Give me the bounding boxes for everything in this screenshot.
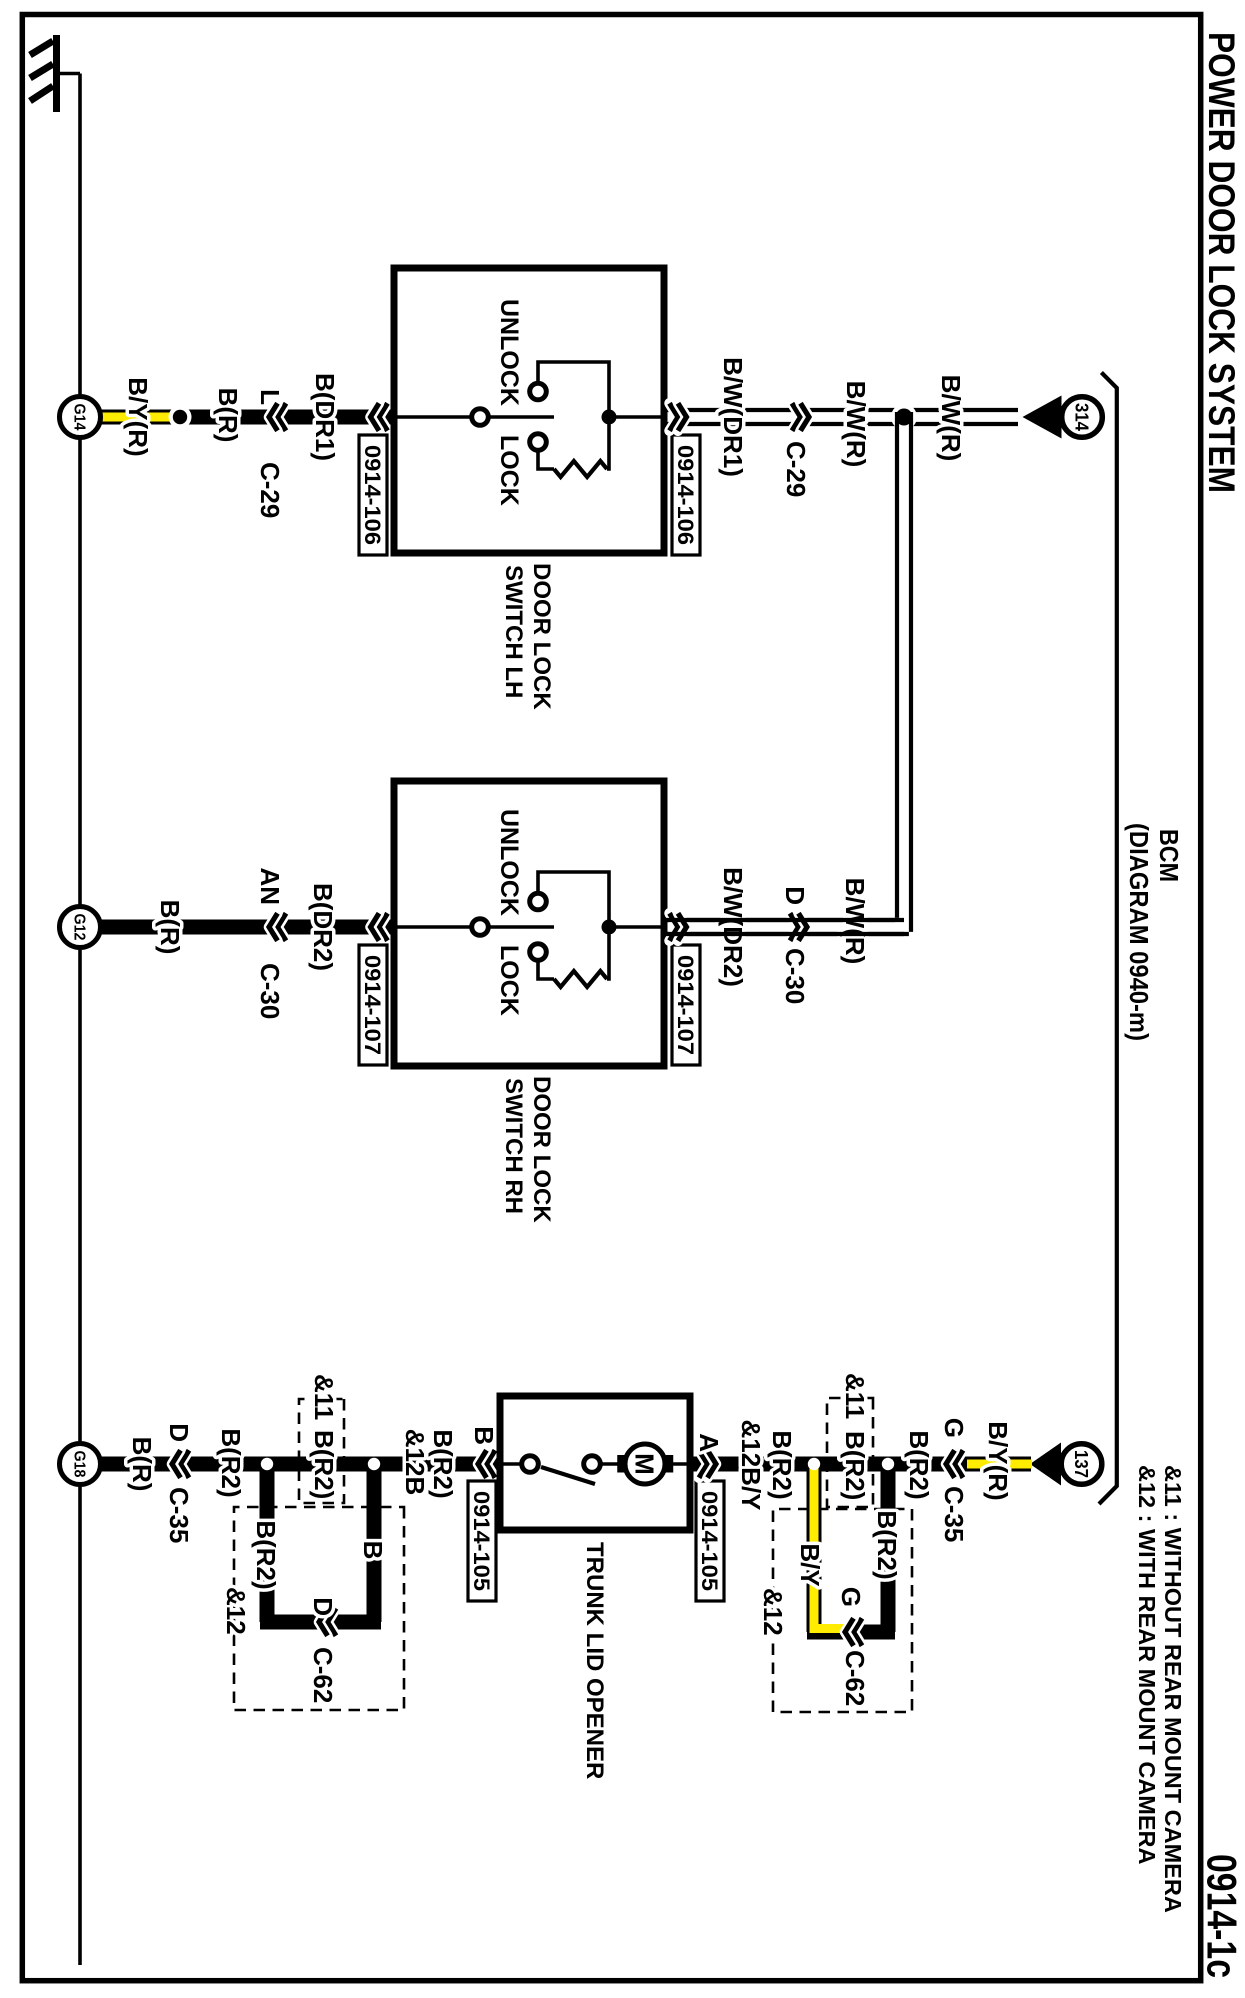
variant box &12 (lower)	[234, 1507, 404, 1710]
wire ground symbol to bus	[60, 72, 80, 76]
wire LOCK contact to resistor	[538, 450, 554, 469]
svg-text:B(DR2): B(DR2)	[308, 883, 338, 971]
svg-text:G12: G12	[71, 914, 88, 941]
ground bus wire	[78, 74, 82, 1966]
svg-text:C-62: C-62	[308, 1647, 338, 1703]
switch RH LOCK contact	[530, 944, 547, 961]
variant box &12 (upper)	[773, 1509, 912, 1712]
svg-text:B/Y(R): B/Y(R)	[123, 377, 153, 456]
svg-text:B/Y: B/Y	[795, 1543, 825, 1586]
junction dot in switch LH	[602, 410, 617, 425]
connector C-30 chevrons (upper)	[790, 913, 799, 941]
wire B/W(DR1) double-line from switch LH to C-29	[664, 408, 904, 412]
svg-text:(DIAGRAM 0940-m): (DIAGRAM 0940-m)	[1124, 823, 1154, 1041]
svg-text:&12 : WITH REAR MOUNT CAMERA: &12 : WITH REAR MOUNT CAMERA	[1134, 1465, 1160, 1865]
connector C-30 chevrons (pin AN)	[278, 913, 287, 941]
in-line connector chevrons at switch LH lower pin	[379, 403, 388, 431]
svg-text:C-35: C-35	[939, 1486, 969, 1542]
svg-text:B/W(DR1): B/W(DR1)	[718, 357, 748, 477]
in-line connector chevrons at trunk lid opener lower pin	[487, 1450, 496, 1478]
svg-text:TRUNK LID OPENER: TRUNK LID OPENER	[581, 1542, 608, 1779]
svg-text:B(R): B(R)	[213, 388, 243, 443]
svg-text:L: L	[255, 389, 285, 405]
svg-text:B: B	[358, 1541, 388, 1560]
part label 0914-107 (upper)	[672, 945, 700, 1065]
wire RH junction to box top	[609, 925, 664, 929]
variant box &11 (lower)	[299, 1399, 344, 1503]
&12 detour wire lower (via C-62)	[260, 1464, 275, 1622]
trunk switch upper contact	[584, 1456, 601, 1473]
part label 0914-105 (upper)	[696, 1481, 724, 1601]
svg-text:&12: &12	[758, 1588, 788, 1636]
svg-text:LOCK: LOCK	[495, 435, 523, 506]
ground node G18	[60, 1444, 101, 1485]
&12 detour wire upper (B/Y via C-62)	[807, 1464, 822, 1632]
trunk switch arm	[541, 1467, 595, 1484]
wire B/W(R) to BCM 314	[904, 408, 1018, 412]
svg-text:B: B	[469, 1426, 499, 1445]
svg-text:0914-105: 0914-105	[697, 1491, 722, 1591]
trunk switch lower contact	[500, 1462, 522, 1466]
svg-text:BCM: BCM	[1154, 829, 1184, 882]
svg-text:0914-1c: 0914-1c	[1199, 1854, 1245, 1978]
motor M	[617, 1455, 625, 1473]
in-line connector chevrons at switch RH lower pin	[379, 913, 388, 941]
wire switch to motor	[600, 1462, 624, 1466]
switch LH movable arm	[488, 415, 554, 419]
wire RH resistor to output junction	[607, 934, 609, 979]
BCM connector arrow 314	[1023, 396, 1062, 439]
junction dot upper right	[808, 1458, 820, 1470]
svg-text:D: D	[780, 886, 810, 905]
svg-text:DOOR LOCK: DOOR LOCK	[528, 563, 555, 710]
svg-text:B(R2): B(R2)	[309, 1430, 339, 1499]
svg-text:B(R2): B(R2)	[767, 1430, 797, 1499]
BCM bracket	[1099, 373, 1117, 1505]
svg-text:0914-107: 0914-107	[360, 955, 385, 1055]
wire UNLOCK contact to output junction	[538, 362, 609, 410]
ground node G12	[60, 907, 101, 948]
svg-text:B(R): B(R)	[155, 900, 185, 955]
part label 0914-106 (upper)	[672, 435, 700, 555]
svg-text:C-30: C-30	[255, 963, 285, 1019]
svg-text:G: G	[939, 1418, 969, 1438]
svg-text:C-35: C-35	[164, 1487, 194, 1543]
svg-text:B(R2): B(R2)	[904, 1430, 934, 1499]
switch LH LOCK contact	[530, 434, 547, 451]
svg-text:B(R2): B(R2)	[872, 1510, 902, 1579]
switch LH UNLOCK contact	[530, 383, 547, 400]
svg-text:0914-106: 0914-106	[360, 445, 385, 545]
svg-text:C-62: C-62	[840, 1650, 870, 1706]
switch box DOOR LOCK SWITCH LH	[394, 268, 664, 553]
wire RH LOCK contact to resistor	[538, 960, 554, 979]
svg-text:D: D	[164, 1423, 194, 1442]
svg-text:M: M	[630, 1453, 660, 1475]
svg-text:UNLOCK: UNLOCK	[495, 809, 523, 916]
resistor in switch RH	[554, 971, 607, 987]
junction of switch outputs	[891, 404, 917, 430]
svg-text:0914-105: 0914-105	[469, 1491, 494, 1591]
svg-text:SWITCH LH: SWITCH LH	[500, 565, 527, 698]
wire junction to box top	[609, 415, 664, 419]
connector C-62 chevrons (upper)	[854, 1618, 863, 1646]
svg-text:0914-107: 0914-107	[673, 955, 698, 1055]
svg-text:B(R2): B(R2)	[840, 1431, 870, 1500]
switch box DOOR LOCK SWITCH RH	[394, 781, 664, 1066]
yellow B/Y(R) overlay above C-35	[967, 1460, 1032, 1469]
svg-text:B(R2): B(R2)	[216, 1428, 246, 1497]
svg-text:&12: &12	[221, 1587, 251, 1635]
resistor in switch LH	[554, 461, 607, 477]
connector C-35 chevrons (pin D)	[181, 1450, 190, 1478]
svg-text:137: 137	[1071, 1450, 1091, 1478]
BCM connector arrow 137	[1030, 1443, 1061, 1486]
connector C-35 chevrons (upper)	[955, 1450, 964, 1478]
switch RH UNLOCK contact	[530, 893, 547, 910]
svg-text:UNLOCK: UNLOCK	[495, 299, 523, 406]
wire motor to box top	[665, 1462, 690, 1466]
connector C-62 chevrons (lower)	[328, 1608, 337, 1636]
variant box &11 (upper)	[827, 1398, 873, 1507]
svg-text:B/Y(R): B/Y(R)	[983, 1421, 1013, 1500]
svg-text:B/W(R): B/W(R)	[841, 381, 871, 468]
switch LH common wire and pivot contact	[394, 415, 472, 419]
svg-text:&11: &11	[840, 1373, 870, 1419]
svg-text:314: 314	[1072, 403, 1092, 431]
svg-text:LOCK: LOCK	[495, 945, 523, 1016]
svg-text:B(DR1): B(DR1)	[310, 373, 340, 461]
wire RH UNLOCK contact to output junction	[538, 872, 609, 920]
wire B/Y(R) from G14 (yellow)	[101, 410, 180, 425]
svg-text:C-29: C-29	[255, 462, 285, 518]
wire B(R) up to switch LH	[184, 410, 394, 425]
svg-text:0914-106: 0914-106	[673, 445, 698, 545]
svg-text:&12B/Y: &12B/Y	[736, 1419, 766, 1510]
svg-text:A: A	[694, 1433, 724, 1452]
switch RH common wire and pivot contact	[394, 925, 472, 929]
svg-text:SWITCH RH: SWITCH RH	[500, 1078, 527, 1214]
wire resistor to output junction	[607, 424, 609, 469]
svg-text:G14: G14	[71, 404, 88, 431]
wire B/W(R) link col2 to col1	[664, 918, 895, 922]
svg-text:POWER DOOR LOCK SYSTEM: POWER DOOR LOCK SYSTEM	[1201, 32, 1242, 493]
svg-text:G18: G18	[71, 1451, 88, 1478]
in-line connector chevrons at switch LH upper pin	[670, 403, 679, 431]
junction dot in switch RH	[602, 920, 617, 935]
svg-text:B(R2): B(R2)	[251, 1520, 281, 1589]
connector C-29 chevrons (upper)	[792, 403, 801, 431]
svg-text:&11 : WITHOUT REAR MOUNT CAMER: &11 : WITHOUT REAR MOUNT CAMERA	[1160, 1465, 1186, 1913]
part label 0914-106 (lower)	[359, 435, 387, 555]
svg-text:C-29: C-29	[781, 441, 811, 497]
svg-text:C-30: C-30	[780, 948, 810, 1004]
wire B/W(DR2) double-line from switch RH	[664, 918, 904, 922]
in-line connector chevrons at trunk lid opener upper pin	[699, 1450, 708, 1478]
svg-text:AN: AN	[255, 867, 285, 905]
wire B(R) from G12	[101, 920, 394, 935]
svg-text:B(R): B(R)	[127, 1437, 157, 1492]
svg-text:D: D	[308, 1597, 338, 1616]
svg-text:&12B: &12B	[400, 1429, 430, 1495]
svg-text:&11: &11	[309, 1374, 339, 1420]
junction dot lower left	[368, 1458, 380, 1470]
wire B(R2) from trunk box top	[690, 1457, 1031, 1472]
wire B(R) from G18	[101, 1457, 500, 1472]
switch RH movable arm	[488, 925, 554, 929]
junction dot lower right	[261, 1458, 273, 1470]
svg-text:G: G	[836, 1587, 866, 1607]
splice junction on col1 ground wire	[169, 406, 192, 429]
part label 0914-107 (lower)	[359, 945, 387, 1065]
ground symbol	[53, 35, 60, 112]
junction dot upper left	[882, 1458, 894, 1470]
connector C-29 chevrons (pin L)	[278, 403, 287, 431]
svg-text:B(R2): B(R2)	[428, 1429, 458, 1498]
svg-text:B/W(DR2): B/W(DR2)	[718, 867, 748, 987]
svg-text:DOOR LOCK: DOOR LOCK	[528, 1076, 555, 1223]
svg-text:B/W(R): B/W(R)	[936, 375, 966, 462]
part label 0914-105 (lower)	[468, 1481, 496, 1601]
in-line connector chevrons at switch RH upper pin	[670, 913, 679, 941]
yellow B/Y overlay on &12 detour	[814, 1464, 845, 1629]
ground node G14	[60, 397, 101, 438]
component box TRUNK LID OPENER	[500, 1396, 690, 1530]
